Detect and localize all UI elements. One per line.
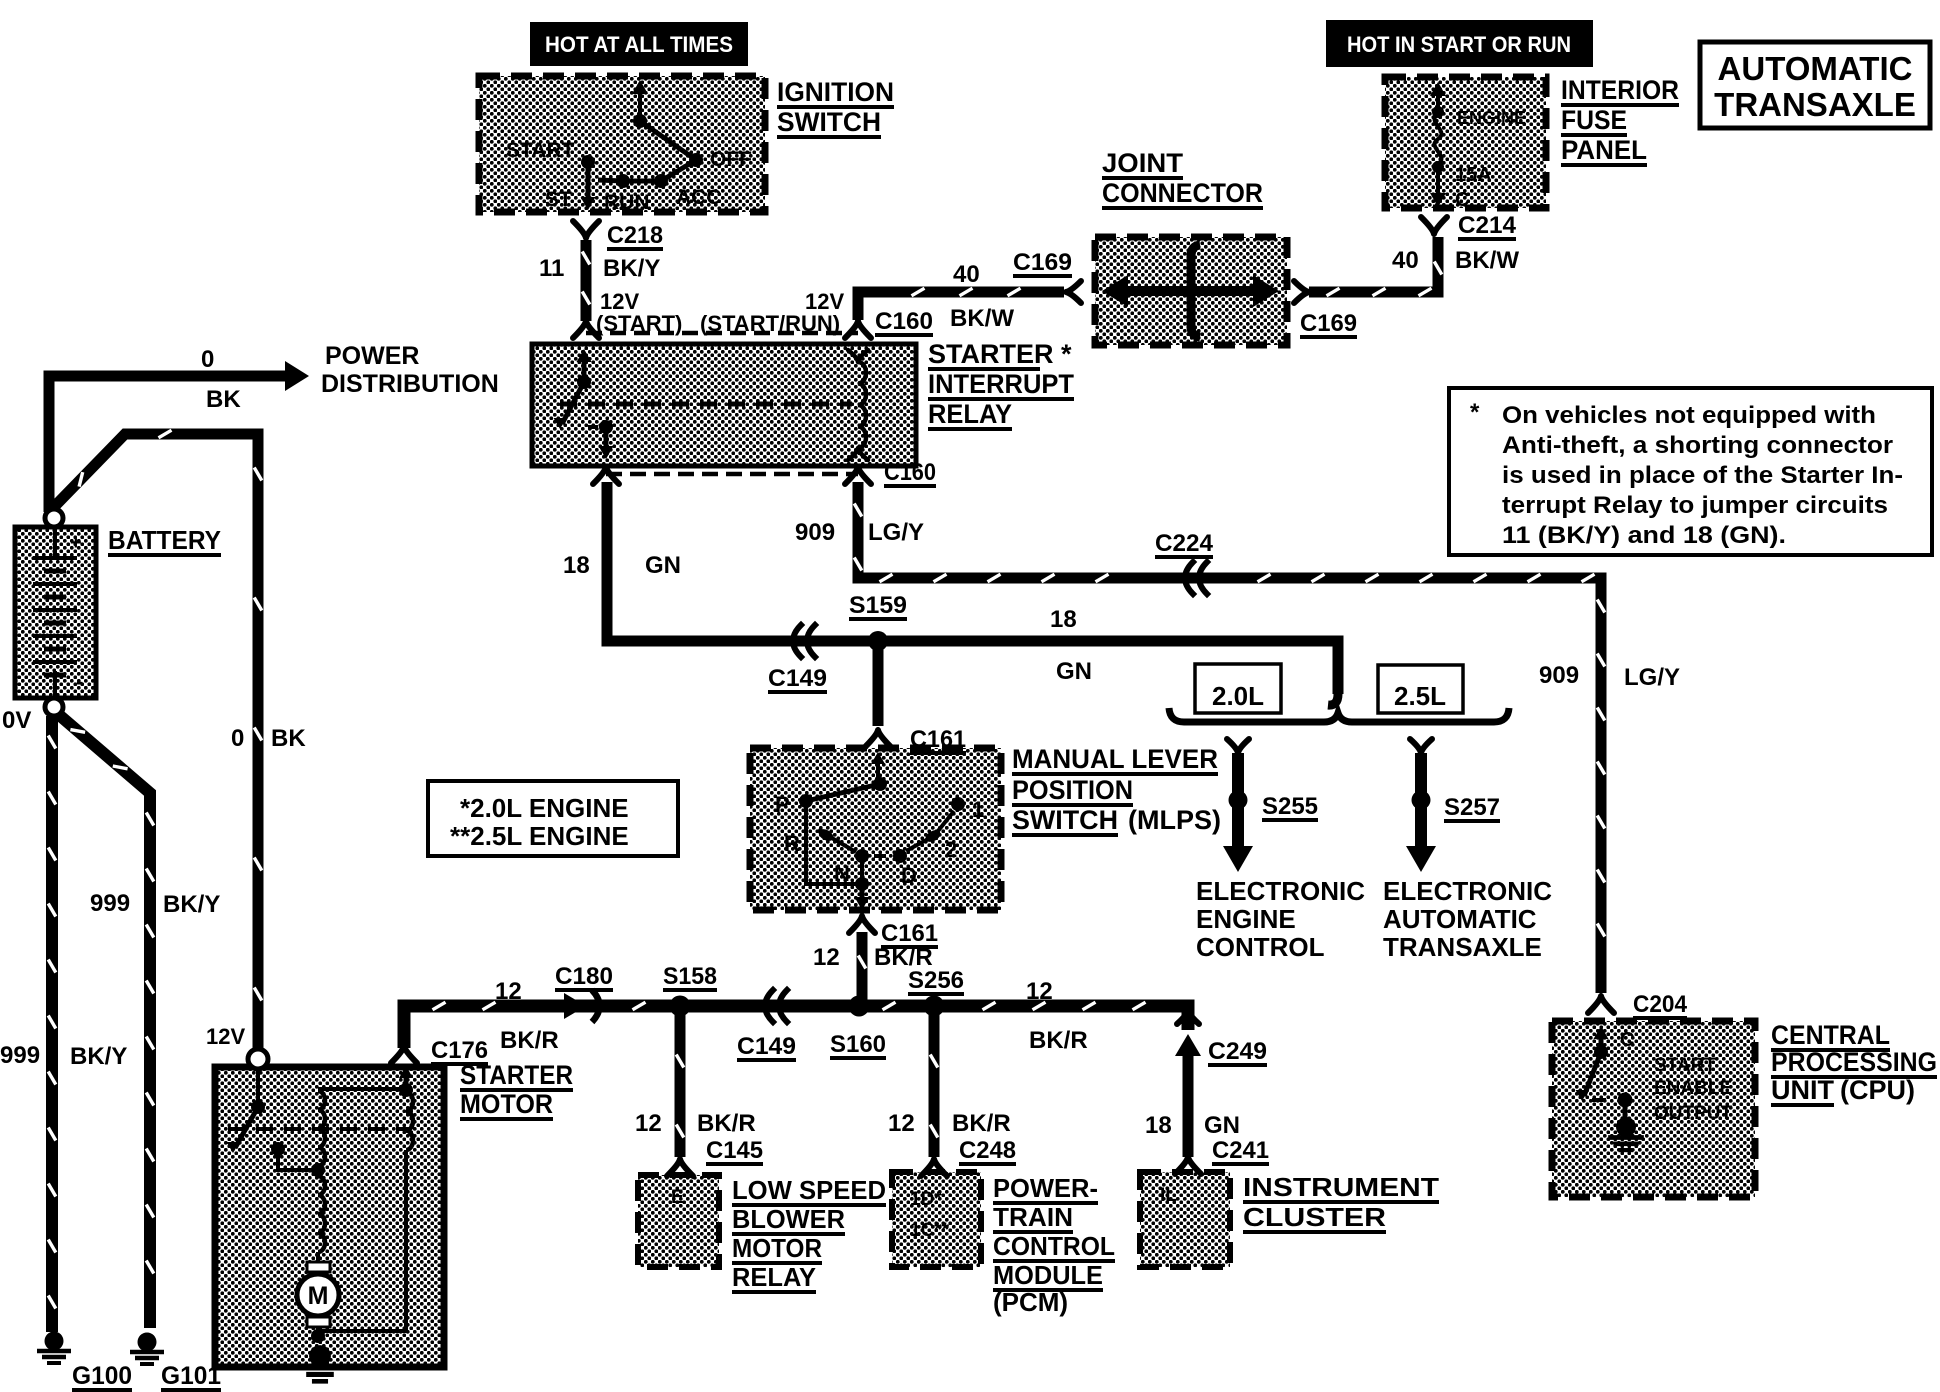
svg-text:S160: S160 xyxy=(830,1031,886,1058)
svg-text:ELECTRONIC: ELECTRONIC xyxy=(1196,876,1365,906)
svg-text:C145: C145 xyxy=(706,1137,763,1164)
svg-text:ACC: ACC xyxy=(676,186,722,209)
svg-text:BK/Y: BK/Y xyxy=(70,1043,127,1070)
svg-text:1D*: 1D* xyxy=(910,1189,942,1210)
svg-text:S256: S256 xyxy=(908,967,964,994)
svg-text:12V: 12V xyxy=(206,1024,245,1049)
svg-text:BK/Y: BK/Y xyxy=(603,255,660,282)
svg-text:INTERRUPT: INTERRUPT xyxy=(928,369,1074,399)
svg-text:C: C xyxy=(1455,189,1469,211)
svg-text:BK/W: BK/W xyxy=(1455,247,1519,274)
svg-text:12: 12 xyxy=(1026,978,1053,1005)
svg-text:JOINT: JOINT xyxy=(1102,148,1184,178)
svg-text:C149: C149 xyxy=(768,665,827,692)
svg-text:LG/Y: LG/Y xyxy=(868,519,924,546)
svg-text:12: 12 xyxy=(813,944,840,971)
svg-text:IGNITION: IGNITION xyxy=(777,77,894,107)
svg-text:Anti-theft, a shorting connect: Anti-theft, a shorting connector xyxy=(1502,432,1893,459)
svg-text:C: C xyxy=(1620,1029,1634,1051)
svg-text:BK/R: BK/R xyxy=(697,1110,756,1137)
svg-text:MOTOR: MOTOR xyxy=(460,1089,553,1119)
svg-text:INTERIOR: INTERIOR xyxy=(1561,75,1679,105)
svg-text:18: 18 xyxy=(1145,1112,1172,1139)
svg-text:909: 909 xyxy=(1539,662,1579,689)
svg-text:N: N xyxy=(834,861,850,886)
svg-text:C160: C160 xyxy=(884,459,936,486)
svg-text:999: 999 xyxy=(90,890,130,917)
svg-text:CONNECTOR: CONNECTOR xyxy=(1102,178,1263,208)
svg-text:18: 18 xyxy=(563,552,590,579)
svg-text:FUSE: FUSE xyxy=(1561,105,1627,135)
svg-text:(PCM): (PCM) xyxy=(993,1287,1068,1317)
svg-text:TRANSAXLE: TRANSAXLE xyxy=(1714,86,1916,123)
svg-text:ST: ST xyxy=(545,188,572,211)
svg-text:C214: C214 xyxy=(1458,212,1517,239)
svg-text:DISTRIBUTION: DISTRIBUTION xyxy=(321,370,499,398)
svg-text:CONTROL: CONTROL xyxy=(1196,932,1325,962)
svg-text:S158: S158 xyxy=(663,963,717,990)
svg-text:1: 1 xyxy=(972,797,984,822)
svg-text:1C**: 1C** xyxy=(910,1220,950,1241)
svg-text:C248: C248 xyxy=(959,1137,1016,1164)
svg-text:C224: C224 xyxy=(1155,530,1214,557)
svg-text:GN: GN xyxy=(645,552,681,579)
svg-text:CONTROL: CONTROL xyxy=(993,1231,1115,1261)
svg-text:0: 0 xyxy=(231,725,244,752)
svg-text:UNIT: UNIT xyxy=(1771,1075,1834,1105)
svg-text:ENGINE: ENGINE xyxy=(1196,904,1296,934)
svg-text:BK/R: BK/R xyxy=(952,1110,1011,1137)
svg-text:LG/Y: LG/Y xyxy=(1624,664,1680,691)
svg-text:C149: C149 xyxy=(737,1033,796,1060)
svg-text:SWITCH: SWITCH xyxy=(1012,805,1118,835)
svg-text:STARTER: STARTER xyxy=(460,1060,573,1090)
svg-text:D: D xyxy=(901,863,917,888)
svg-text:999: 999 xyxy=(0,1042,40,1069)
svg-text:BK/R: BK/R xyxy=(500,1027,559,1054)
svg-text:BK/R: BK/R xyxy=(1029,1027,1088,1054)
svg-text:STARTER *: STARTER * xyxy=(928,339,1072,369)
svg-text:C161: C161 xyxy=(881,920,938,947)
svg-text:START: START xyxy=(1654,1055,1716,1076)
svg-text:ELECTRONIC: ELECTRONIC xyxy=(1383,876,1552,906)
svg-text:-: - xyxy=(76,669,83,694)
svg-text:GN: GN xyxy=(1056,658,1092,685)
svg-text:START: START xyxy=(506,139,575,162)
svg-text:LOW SPEED: LOW SPEED xyxy=(732,1175,886,1205)
svg-text:*: * xyxy=(1470,399,1480,426)
svg-text:S255: S255 xyxy=(1262,793,1318,820)
svg-text:(START/RUN): (START/RUN) xyxy=(700,311,840,336)
svg-text:C241: C241 xyxy=(1212,1137,1269,1164)
svg-text:OFF: OFF xyxy=(710,148,752,171)
svg-text:11: 11 xyxy=(539,255,564,282)
svg-text:TRAIN: TRAIN xyxy=(993,1202,1073,1232)
svg-text:(MLPS): (MLPS) xyxy=(1128,805,1221,835)
svg-text:CLUSTER: CLUSTER xyxy=(1243,1202,1386,1232)
svg-text:CENTRAL: CENTRAL xyxy=(1771,1020,1890,1050)
svg-text:**2.5L ENGINE: **2.5L ENGINE xyxy=(450,821,629,851)
svg-text:HOT AT ALL TIMES: HOT AT ALL TIMES xyxy=(545,32,733,57)
svg-text:(START): (START) xyxy=(596,311,682,336)
svg-text:40: 40 xyxy=(1392,247,1419,274)
svg-text:terrupt Relay to jumper circui: terrupt Relay to jumper circuits xyxy=(1502,492,1888,519)
svg-text:is used in place of the Starte: is used in place of the Starter In- xyxy=(1502,462,1903,489)
svg-text:BK: BK xyxy=(271,725,306,752)
svg-text:2: 2 xyxy=(945,837,957,862)
svg-text:12: 12 xyxy=(888,1110,915,1137)
svg-text:*2.0L ENGINE: *2.0L ENGINE xyxy=(460,793,629,823)
svg-text:P: P xyxy=(775,792,790,817)
svg-text:12: 12 xyxy=(635,1110,662,1137)
svg-text:PANEL: PANEL xyxy=(1561,135,1647,165)
svg-text:0V: 0V xyxy=(2,707,31,734)
svg-text:G100: G100 xyxy=(72,1362,132,1390)
svg-text:IL: IL xyxy=(1160,1185,1177,1206)
svg-text:INSTRUMENT: INSTRUMENT xyxy=(1243,1172,1439,1202)
svg-text:2.0L: 2.0L xyxy=(1212,681,1264,711)
svg-text:S257: S257 xyxy=(1444,794,1500,821)
svg-text:R: R xyxy=(784,831,800,856)
svg-text:18: 18 xyxy=(1050,606,1077,633)
svg-text:BATTERY: BATTERY xyxy=(108,525,221,555)
svg-text:G101: G101 xyxy=(161,1362,221,1390)
svg-text:POWER-: POWER- xyxy=(993,1173,1098,1203)
svg-text:RELAY: RELAY xyxy=(928,399,1012,429)
svg-text:SWITCH: SWITCH xyxy=(777,107,881,137)
svg-text:POSITION: POSITION xyxy=(1012,775,1133,805)
svg-text:+: + xyxy=(70,532,82,554)
svg-text:909: 909 xyxy=(795,519,835,546)
svg-text:BK/W: BK/W xyxy=(950,305,1014,332)
svg-text:E: E xyxy=(671,1187,684,1208)
svg-text:AUTOMATIC: AUTOMATIC xyxy=(1718,50,1913,87)
svg-text:(CPU): (CPU) xyxy=(1840,1075,1915,1105)
svg-text:15A: 15A xyxy=(1455,164,1492,186)
svg-text:C169: C169 xyxy=(1013,249,1072,276)
svg-text:RELAY: RELAY xyxy=(732,1262,816,1292)
svg-text:11 (BK/Y) and 18 (GN).: 11 (BK/Y) and 18 (GN). xyxy=(1502,522,1786,549)
svg-text:MODULE: MODULE xyxy=(993,1260,1103,1290)
svg-text:2.5L: 2.5L xyxy=(1394,681,1446,711)
svg-text:BK: BK xyxy=(206,386,241,413)
svg-text:PROCESSING: PROCESSING xyxy=(1771,1047,1937,1077)
svg-text:M: M xyxy=(308,1282,329,1310)
svg-text:C218: C218 xyxy=(607,222,663,249)
svg-text:C180: C180 xyxy=(555,963,613,990)
svg-text:On vehicles not equipped with: On vehicles not equipped with xyxy=(1502,402,1876,429)
svg-text:C204: C204 xyxy=(1633,991,1688,1018)
svg-text:RUN: RUN xyxy=(604,191,650,214)
svg-text:12V: 12V xyxy=(805,289,844,314)
svg-text:ENGINE: ENGINE xyxy=(1457,108,1526,128)
svg-text:OUTPUT: OUTPUT xyxy=(1654,1103,1733,1124)
svg-text:BK/Y: BK/Y xyxy=(163,891,220,918)
svg-text:12: 12 xyxy=(495,978,522,1005)
svg-text:0: 0 xyxy=(201,346,214,373)
svg-text:ENABLE: ENABLE xyxy=(1654,1078,1732,1099)
svg-text:C169: C169 xyxy=(1300,310,1357,337)
svg-text:AUTOMATIC: AUTOMATIC xyxy=(1383,904,1537,934)
svg-text:TRANSAXLE: TRANSAXLE xyxy=(1383,932,1542,962)
svg-text:40: 40 xyxy=(953,261,980,288)
svg-text:GN: GN xyxy=(1204,1112,1240,1139)
svg-text:C249: C249 xyxy=(1208,1038,1267,1065)
svg-text:HOT IN START OR RUN: HOT IN START OR RUN xyxy=(1347,32,1571,57)
svg-text:POWER: POWER xyxy=(325,342,419,370)
svg-text:S159: S159 xyxy=(849,592,907,619)
svg-text:MOTOR: MOTOR xyxy=(732,1233,822,1263)
svg-text:MANUAL LEVER: MANUAL LEVER xyxy=(1012,744,1218,774)
svg-text:C161: C161 xyxy=(910,726,966,753)
svg-text:BLOWER: BLOWER xyxy=(732,1204,845,1234)
svg-text:C160: C160 xyxy=(875,308,933,335)
